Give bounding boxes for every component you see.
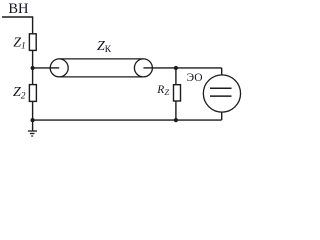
wire ground bus <box>33 119 222 121</box>
wire Z1 to Z2 <box>32 50 34 84</box>
svg-text:RZ: RZ <box>156 84 169 97</box>
wire oscilloscope top lead <box>221 68 223 75</box>
resistor Z2 <box>29 85 36 102</box>
coaxial cable ZK right end <box>134 59 152 77</box>
junction node C (bottom of RZ) <box>174 118 178 122</box>
junction node A <box>30 66 34 70</box>
svg-text:ZК: ZК <box>97 39 112 55</box>
wire RZ top lead <box>175 68 177 85</box>
wire ground lead <box>32 120 34 131</box>
wire stub out of right end <box>143 67 152 69</box>
wire top input <box>2 17 33 34</box>
svg-text:ВН: ВН <box>8 1 29 17</box>
oscilloscope EO plates <box>210 87 232 89</box>
wire junction to cable <box>33 67 60 69</box>
wire Z2 to ground bus <box>32 101 34 120</box>
wire cable to oscilloscope branch <box>152 67 221 69</box>
oscilloscope EO body <box>203 75 240 112</box>
coaxial cable ZK left end <box>50 59 68 77</box>
wire oscilloscope bottom lead <box>221 112 223 120</box>
coaxial cable ZK body <box>59 58 143 60</box>
wire stub into left end <box>50 67 59 69</box>
resistor RZ <box>174 85 181 101</box>
ground <box>28 130 37 132</box>
junction node D (ground) <box>30 118 34 122</box>
wire RZ bottom lead <box>175 101 177 120</box>
svg-text:ЭО: ЭО <box>187 72 203 84</box>
svg-text:Z2: Z2 <box>13 85 26 101</box>
junction node B (top of RZ) <box>174 66 178 70</box>
svg-text:Z1: Z1 <box>13 35 26 51</box>
resistor Z1 <box>29 34 36 51</box>
